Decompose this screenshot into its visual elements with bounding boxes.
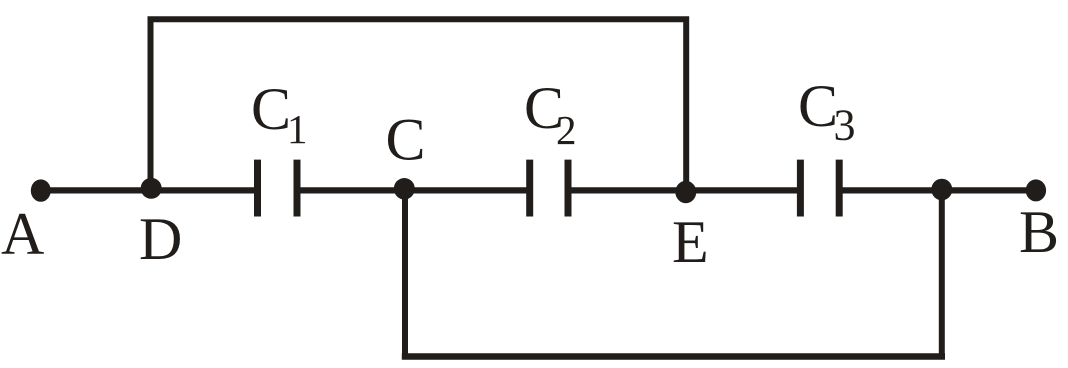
svg-text:C: C [386,107,426,173]
svg-text:1: 1 [287,106,308,152]
svg-text:D: D [139,206,182,272]
svg-text:3: 3 [834,101,856,150]
svg-text:A: A [1,201,44,267]
svg-text:C: C [798,73,838,139]
svg-text:E: E [672,209,709,275]
svg-text:C: C [251,76,291,142]
svg-text:B: B [1019,199,1059,265]
svg-text:2: 2 [556,107,577,153]
